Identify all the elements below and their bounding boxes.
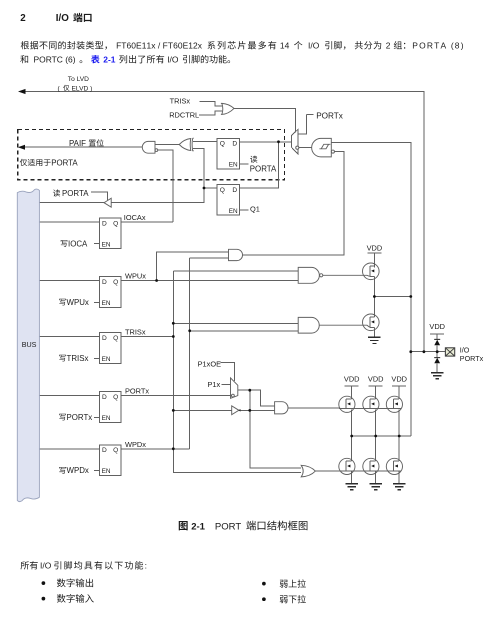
svg-text:EN: EN — [229, 208, 238, 215]
svg-text:VDD: VDD — [344, 375, 360, 384]
svg-text:Q: Q — [113, 394, 118, 401]
svg-text:P1xOE: P1xOE — [198, 360, 221, 369]
svg-text:P: P — [412, 41, 418, 51]
svg-text:): ) — [461, 41, 464, 51]
svg-text:A: A — [440, 41, 446, 51]
svg-text:TRISx: TRISx — [67, 354, 89, 363]
svg-text:2: 2 — [386, 41, 391, 51]
svg-text:D: D — [102, 394, 107, 401]
svg-text:EN: EN — [102, 415, 111, 422]
svg-text:WPDx: WPDx — [125, 440, 146, 449]
svg-text:PORTx: PORTx — [460, 354, 484, 363]
svg-text:Q: Q — [220, 187, 225, 194]
svg-text:EN: EN — [229, 162, 238, 169]
svg-text:TRISx: TRISx — [125, 328, 146, 337]
svg-text:Q: Q — [113, 220, 118, 227]
svg-text:I/O: I/O — [56, 13, 69, 24]
svg-text:(: ( — [451, 41, 454, 51]
svg-text:PORTA: PORTA — [62, 189, 89, 198]
svg-text:O: O — [419, 41, 426, 51]
svg-text:x: x — [151, 41, 156, 51]
svg-text:D: D — [232, 141, 237, 148]
svg-text:PORTx: PORTx — [125, 387, 149, 396]
svg-text:D: D — [102, 220, 107, 227]
svg-text:PORTC (6): PORTC (6) — [34, 55, 76, 65]
svg-text:VDD: VDD — [429, 322, 445, 331]
svg-text:PORTA: PORTA — [250, 164, 277, 173]
svg-text:T: T — [434, 41, 439, 51]
svg-text:WPUx: WPUx — [125, 272, 146, 281]
svg-text:P1x: P1x — [208, 380, 221, 389]
svg-text:PORTx: PORTx — [316, 111, 343, 120]
svg-text:x: x — [198, 41, 203, 51]
svg-text:Q: Q — [113, 335, 118, 342]
svg-text:TRISx: TRISx — [170, 96, 191, 105]
svg-text:D: D — [102, 335, 107, 342]
svg-text:R: R — [427, 41, 433, 51]
svg-text:I/O: I/O — [167, 55, 179, 65]
svg-text:ELVD ): ELVD ) — [72, 85, 93, 92]
svg-text:IOCA: IOCA — [68, 239, 88, 248]
svg-text:EN: EN — [102, 468, 111, 475]
svg-text:BUS: BUS — [22, 340, 37, 349]
svg-text:D: D — [102, 447, 107, 454]
svg-text:VDD: VDD — [367, 243, 383, 252]
svg-text:Q: Q — [220, 141, 225, 148]
svg-text:2: 2 — [20, 13, 26, 24]
svg-text:14: 14 — [280, 41, 290, 51]
svg-text:PORT: PORT — [215, 521, 242, 532]
svg-text:D: D — [102, 279, 107, 286]
svg-text:RDCTRL: RDCTRL — [169, 110, 199, 119]
svg-text:EN: EN — [102, 356, 111, 363]
svg-text:2-1: 2-1 — [191, 521, 205, 532]
svg-text:EN: EN — [102, 300, 111, 307]
svg-text:Q: Q — [113, 447, 118, 454]
svg-text:I/O: I/O — [308, 41, 320, 51]
svg-text:To LVD: To LVD — [68, 76, 89, 83]
svg-text:PORTA: PORTA — [51, 158, 78, 167]
svg-text:WPUx: WPUx — [67, 298, 89, 307]
svg-text:Q: Q — [113, 279, 118, 286]
svg-text:IOCAx: IOCAx — [124, 213, 146, 222]
svg-text:8: 8 — [455, 41, 460, 51]
svg-text:I/O: I/O — [40, 561, 52, 571]
svg-text:Q1: Q1 — [250, 205, 260, 214]
svg-text:WPDx: WPDx — [67, 466, 89, 475]
svg-text:EN: EN — [102, 241, 111, 248]
svg-text:/: / — [158, 41, 161, 51]
svg-text:I/O: I/O — [460, 345, 470, 354]
svg-text:PAIF: PAIF — [69, 139, 86, 148]
svg-text::: : — [145, 561, 147, 571]
svg-text:PORTx: PORTx — [67, 413, 93, 422]
svg-text:VDD: VDD — [391, 375, 407, 384]
svg-text:VDD: VDD — [368, 375, 384, 384]
svg-text:2-1: 2-1 — [103, 55, 116, 65]
svg-text:D: D — [232, 187, 237, 194]
